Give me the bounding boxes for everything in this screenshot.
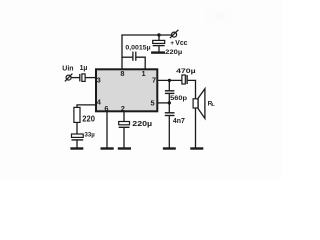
terminal Vcc [170,30,179,38]
ground [190,147,203,149]
node junction pin 7 [168,79,171,82]
wire pin 4 to resistor [77,105,97,108]
capacitor C8 220µ [119,122,130,128]
svg-text:4n7: 4n7 [173,118,185,125]
svg-text:3: 3 [97,75,101,84]
wire C2 to ground [76,141,78,148]
speaker RL [193,89,205,119]
svg-text:8: 8 [120,69,124,78]
svg-text:Uin: Uin [62,65,73,72]
svg-text:220µ: 220µ [132,119,152,128]
ground [151,51,165,53]
wire junction to C3 [158,35,160,40]
wire C7 to ground [168,116,170,147]
ground [163,147,176,149]
svg-text:Vcc: Vcc [175,40,187,47]
svg-text:1µ: 1µ [80,65,88,72]
input terminal Uin [65,74,73,82]
wire C8 to ground [123,128,125,148]
capacitor C2 33µ [72,134,84,140]
node junction top rail [157,33,160,36]
ground [101,147,114,149]
wire C5 to speaker [188,80,196,99]
capacitor C1 1µ [80,74,85,82]
wire C4 to pin 1 riser [136,57,145,69]
wire node to C7 [168,103,170,113]
svg-text:L: L [212,102,215,107]
watermark [208,8,233,25]
wire pin 8 riser [121,35,123,69]
svg-text:220µ: 220µ [165,49,182,56]
wire C1 to pin 3 [85,77,96,79]
wire pin 7 [158,79,182,81]
wire junction to C6 [168,80,170,90]
capacitor C5 470µ [182,75,187,84]
capacitor C7 4n7 [165,113,175,116]
svg-text:5: 5 [150,98,154,107]
wire top rail to Vcc [121,34,171,36]
node junction pin 5 [168,101,171,104]
resistor R1 220 [74,107,80,122]
op-amp IC U1 [96,69,157,111]
ground [70,147,83,149]
wire C6 to pin 5 node [168,94,170,103]
svg-text:+: + [170,40,174,47]
wire pin 2 to C8 [123,111,125,122]
capacitor C4 0,0015µ [133,52,136,61]
svg-text:560p: 560p [170,95,187,102]
wire pin 6 to ground [106,111,108,148]
capacitor C6 560p [165,91,175,94]
wire pin8 riser to C4 [121,56,132,58]
svg-text:0,0015µ: 0,0015µ [125,44,150,51]
ground [118,147,131,149]
svg-text:1: 1 [142,69,146,78]
capacitor C3 220µ [153,40,165,45]
wire speaker to ground [195,108,197,148]
svg-text:7: 7 [152,76,156,85]
svg-text:33µ: 33µ [85,131,95,138]
wire C3 to ground [158,46,160,52]
wire resistor to C2 [76,122,78,134]
svg-text:220: 220 [82,114,95,123]
svg-text:470µ: 470µ [176,68,196,75]
wire pin 5 [158,102,170,104]
wire terminal to C1 [71,77,79,79]
